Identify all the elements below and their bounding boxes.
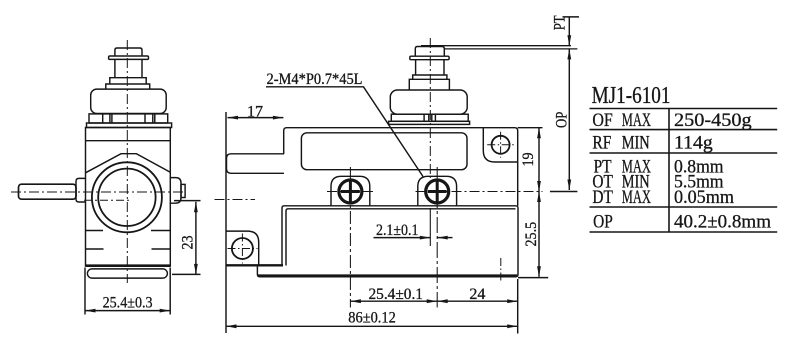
rubber boot (middle view): [390, 90, 467, 114]
svg-text:23: 23: [180, 235, 197, 249]
table column divider: [668, 109, 670, 233]
side plunger block (middle view): [227, 154, 285, 174]
ear hole circle (bottom left): [232, 238, 253, 259]
vertical centerline (left view): [126, 40, 128, 283]
svg-text:MIN: MIN: [622, 132, 650, 153]
base plate under band (middle view): [389, 121, 470, 124]
right terminal tab (left view): [170, 178, 181, 204]
svg-text:86±0.12: 86±0.12: [348, 309, 396, 327]
svg-text:17: 17: [247, 103, 263, 120]
plunger step2 (middle view): [409, 79, 449, 90]
SECTION: texts: [103, 15, 571, 326]
bezel inner circle (left view): [98, 169, 155, 226]
dimension 19 top tick: [518, 127, 543, 129]
base flange outline (middle view): [257, 206, 518, 277]
svg-text:2-M4*P0.7*45L: 2-M4*P0.7*45L: [267, 70, 363, 88]
svg-text:2.1±0.1: 2.1±0.1: [376, 222, 418, 239]
svg-text:MJ1-6101: MJ1-6101: [592, 82, 671, 109]
body bottom thick edge (left view): [86, 264, 171, 267]
mounting ear inner line (middle view): [483, 128, 517, 162]
terminal screw left ring: [339, 180, 362, 203]
dimension 25.5 line: [538, 192, 540, 277]
extension line right (86/24 dims): [517, 279, 519, 334]
terminal screw rod (left view): [19, 184, 77, 199]
ear hole lower reference centerline: [500, 258, 502, 283]
switch body (left view): [86, 128, 171, 267]
svg-text:25.4±0.3: 25.4±0.3: [103, 295, 153, 312]
dimension 19 line: [538, 128, 540, 192]
table bottom rule: [590, 231, 778, 233]
screw left horizontal centerline: [327, 191, 374, 193]
screw right horizontal centerline (19 dim reference): [416, 191, 543, 193]
plunger centerline (middle view): [429, 38, 431, 178]
dimension OP bottom tick: [550, 191, 577, 193]
svg-text:19: 19: [520, 152, 537, 166]
screw left vertical centerline: [349, 167, 351, 308]
plunger step2 (left view): [106, 84, 150, 89]
terminal screw right cross: [428, 182, 447, 202]
svg-text:OF: OF: [592, 109, 613, 131]
dimension 25.5 bottom tick: [518, 277, 548, 279]
svg-text:MAX: MAX: [622, 111, 652, 131]
dimension 25.4±0.1: [350, 300, 437, 302]
dimension PT top tick: [563, 16, 580, 18]
terminal dome right: [418, 176, 457, 206]
SECTION: table texts: [592, 82, 772, 232]
clamp band (middle view): [391, 114, 468, 121]
svg-text:DT: DT: [592, 187, 613, 208]
table rule under row RF: [590, 152, 778, 154]
svg-text:OP: OP: [553, 112, 571, 128]
table top rule: [590, 108, 778, 110]
plunger stem (left view): [115, 59, 142, 77]
dimension OP line: [568, 49, 570, 190]
rubber boot (left view): [91, 89, 167, 113]
plunger step1 (left view): [110, 78, 146, 84]
svg-text:RF: RF: [592, 132, 611, 153]
dimension 86±0.12: [226, 325, 518, 327]
terminal rod centerline: [11, 191, 186, 193]
bottom-left mounting ear (middle view): [226, 231, 259, 265]
mounting foot (left view): [87, 269, 167, 278]
ear hole centerlines: [487, 132, 515, 158]
plunger flange (left view): [109, 56, 149, 59]
circle horizontal secondary centerline (left view): [84, 199, 131, 201]
plunger stem (middle view): [416, 60, 444, 75]
svg-text:0.05mm: 0.05mm: [674, 187, 734, 208]
svg-text:114g: 114g: [674, 133, 713, 154]
ear hole centerlines (bottom left): [228, 234, 258, 264]
dimension 17: [228, 117, 284, 119]
plunger flange (middle view): [410, 56, 449, 60]
svg-text:250-450g: 250-450g: [674, 109, 752, 130]
svg-text:25.4±0.1: 25.4±0.1: [369, 286, 423, 303]
svg-text:40.2±0.8mm: 40.2±0.8mm: [674, 212, 771, 233]
dimension PT line: [568, 17, 570, 46]
clamp band (left view): [89, 114, 168, 123]
dimension 2.1±0.1 leader: [374, 237, 431, 239]
left terminal tab (left view): [76, 178, 86, 202]
table rule under row OF: [590, 129, 778, 131]
base plate under band (left view): [87, 123, 172, 128]
dimension 23: [174, 200, 201, 202]
svg-text:24: 24: [469, 286, 485, 303]
bezel outer circle (left view): [92, 162, 162, 232]
svg-text:PT: PT: [551, 15, 569, 30]
plunger cap (middle view): [415, 47, 444, 57]
clamp band dividers (middle view): [424, 114, 435, 121]
screw right vertical centerline: [436, 167, 438, 308]
dimension 24: [437, 300, 518, 302]
dimension 25.4±0.3: [85, 268, 170, 315]
side block centerline: [215, 199, 256, 201]
base flange inner line: [286, 209, 516, 266]
body chin lines (left view): [86, 230, 171, 232]
lever free position line: [421, 45, 571, 47]
terminal screw right ring: [426, 180, 449, 203]
svg-text:OP: OP: [593, 211, 613, 232]
svg-text:25.5: 25.5: [523, 222, 540, 247]
ear hole circle (top right): [492, 136, 510, 154]
body lower lines (left view): [86, 248, 171, 250]
plunger cap (left view): [115, 48, 142, 56]
label 2-M4*P0.7*45L leader: [266, 87, 423, 177]
dimension 2.1 right outside arrow: [437, 237, 452, 239]
ear bottom thick edge: [226, 264, 283, 266]
svg-text:MAX: MAX: [622, 188, 652, 208]
plunger step1 (middle view): [413, 75, 447, 79]
table rule under rows PT/OT/DT: [590, 206, 778, 208]
cover inner rounded rect (middle view): [301, 133, 467, 170]
clamp band dividers (left view): [103, 114, 155, 123]
switch body outline (middle view): [284, 128, 518, 206]
body roof chamfer (left view): [86, 154, 171, 173]
terminal dome left: [331, 176, 370, 206]
right screw tip (left view): [181, 184, 185, 197]
base bottom thick edge: [258, 274, 517, 277]
body upper line (left view): [86, 140, 171, 142]
extension line left (86 dim / 17 dim): [225, 112, 227, 333]
lever pressed position line: [444, 48, 577, 50]
terminal screw left cross: [341, 182, 360, 202]
